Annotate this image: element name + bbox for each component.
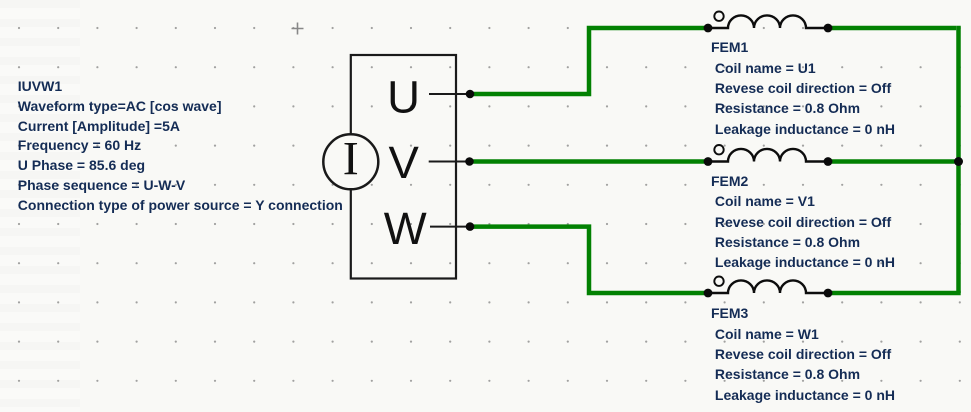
label FEM2 properties [711, 171, 895, 273]
wire right bus (neutral) [956, 26, 961, 293]
origin crosshair [292, 23, 304, 35]
junction dot U [466, 90, 475, 99]
pin W [430, 226, 470, 228]
inductor FEM1 [704, 12, 833, 33]
junction dot bus-FEM2 [954, 157, 963, 166]
pin V [429, 161, 470, 163]
svg-text:I: I [343, 132, 359, 185]
svg-text:W: W [384, 203, 427, 254]
inductor FEM3 [704, 277, 833, 298]
wire FEM1 right to bus [828, 26, 956, 31]
label IUVW1 source properties [18, 77, 343, 215]
svg-text:V: V [389, 137, 420, 188]
svg-text:U: U [387, 71, 420, 122]
power source box IUVW1 [351, 55, 456, 279]
label FEM3 properties [711, 303, 895, 405]
wire W terminal to FEM3 [470, 227, 708, 293]
wire FEM2 right to bus [828, 159, 959, 164]
wire U terminal to FEM1 [470, 28, 708, 94]
label FEM1 properties [711, 37, 895, 139]
current source symbol circle [323, 134, 378, 189]
wire FEM3 right to bus [828, 291, 961, 296]
inductor FEM2 [704, 145, 833, 166]
junction dot V [465, 157, 474, 166]
junction dot W [466, 222, 475, 231]
wire V terminal to FEM2 [470, 159, 709, 164]
pin U [429, 93, 470, 95]
